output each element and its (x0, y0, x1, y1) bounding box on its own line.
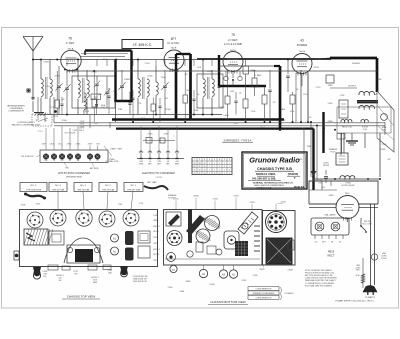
svg-text:78: 78 (53, 160, 55, 162)
svg-text:TYPE 43 TUBE: TYPE 43 TUBE (52, 189, 65, 191)
small box tone cond (326, 75, 334, 83)
ps junction dots (312, 178, 314, 180)
svg-text:NOTE: ON MODEL 588 CLEARLY: NOTE: ON MODEL 588 CLEARLY (305, 269, 333, 272)
svg-text:43: 43 (69, 160, 71, 162)
bottom view trimmer A3 (219, 270, 227, 278)
V3 cathode parts (225, 96, 230, 104)
svg-text:VOLUME CONT.: VOLUME CONT. (105, 161, 119, 163)
svg-text:COMPENSATOR: COMPENSATOR (8, 110, 24, 113)
svg-text:27?4: 27?4 (50, 107, 54, 109)
svg-text:1º′ DET: 1º′ DET (66, 41, 75, 45)
antenna (23, 36, 43, 38)
svg-text:F: F (224, 159, 225, 161)
svg-text:2 MEG: 2 MEG (124, 79, 130, 81)
hatched socket circle 2 (196, 229, 210, 243)
ps right wires (370, 204, 372, 286)
svg-text:RECT: RECT (327, 254, 334, 258)
small socket circle (167, 253, 176, 262)
svg-text:CHASSIS TOP VIEW: CHASSIS TOP VIEW (67, 295, 96, 299)
bus V1 plate thick (85, 49, 132, 51)
chassis left knob (14, 251, 19, 260)
bypass terminal 6 (87, 154, 93, 160)
pilot lamp 1 (315, 222, 324, 231)
terminals column right (254, 225, 260, 227)
filter condenser (324, 176, 328, 178)
svg-text:CHASSIS BOTTOM VIEW: CHASSIS BOTTOM VIEW (210, 300, 245, 304)
svg-text:300: 300 (62, 99, 65, 101)
svg-text:TYPE 78 TUBE: TYPE 78 TUBE (102, 189, 115, 191)
svg-text:27092: 27092 (153, 260, 158, 262)
svg-text:587-588: 587-588 (153, 254, 159, 256)
svg-text:27048: 27048 (340, 95, 345, 97)
filter choke (340, 176, 355, 179)
dark vertical bars (188, 209, 192, 243)
svg-text:27023: 27023 (382, 144, 387, 146)
svg-text:FILTER: FILTER (323, 165, 330, 167)
svg-text:+300: +300 (175, 161, 179, 163)
wire main top bus (33, 59, 197, 61)
svg-text:CHASSIS TYPE 5-B: CHASSIS TYPE 5-B (257, 167, 292, 171)
svg-text:541-580-587 & 588,: 541-580-587 & 588, (252, 176, 276, 180)
speaker box side tab (288, 240, 294, 250)
svg-text:ANT. LEAD: ANT. LEAD (147, 181, 157, 184)
svg-text:CORD: CORD (356, 267, 362, 269)
svg-text:25878: 25878 (220, 107, 225, 109)
svg-text:25884: 25884 (377, 79, 382, 81)
svg-text:TO SHIELD: TO SHIELD (284, 293, 294, 295)
svg-text:25: 25 (219, 173, 221, 175)
svg-text:C-BIAS: C-BIAS (223, 114, 230, 117)
electrolytic can 1 (125, 231, 134, 245)
speaker ground (351, 133, 353, 141)
electrolytic terminal 5 (176, 151, 178, 159)
bypass condenser unit (40, 150, 108, 163)
svg-text:C3: C3 (96, 160, 98, 162)
svg-text:ANTENNA SERIES: ANTENNA SERIES (7, 104, 25, 107)
leaders from boxes to chassis (57, 192, 59, 210)
wire ant to coil (33, 59, 41, 61)
svg-text:2784A: 2784A (62, 119, 68, 122)
svg-text:27034: 27034 (251, 111, 256, 113)
2nd IF transformer can (197, 74, 223, 108)
small box right of L3 (91, 94, 101, 100)
svg-text:#294: #294 (94, 123, 98, 125)
svg-text:T: T (194, 159, 195, 161)
wire left edge vertical (53, 97, 55, 123)
svg-text:I.F. 455 K.C.: I.F. 455 K.C. (133, 43, 153, 47)
tube position box 3 (74, 183, 92, 192)
wire rect down (347, 218, 349, 223)
svg-text:50M: 50M (164, 98, 168, 100)
svg-text:.006: .006 (230, 91, 234, 93)
wire link bottom schematic to ps (303, 130, 305, 188)
svg-text:SPEAKER: SPEAKER (352, 62, 361, 65)
svg-text:C5: C5 (89, 160, 91, 162)
electrolytic terminal 4 (167, 151, 169, 159)
right mid vertical links (295, 80, 297, 123)
chassis bottom edge knob 1 (33, 267, 41, 276)
diode arrow symbol (311, 171, 317, 176)
svg-text:27023: 27023 (298, 159, 303, 161)
svg-text:27044: 27044 (165, 109, 170, 111)
bus shield left vertical (114, 60, 116, 102)
svg-text:.05: .05 (239, 93, 242, 95)
bus shield bottom (114, 100, 132, 102)
junction red dot (54, 110, 57, 113)
speaker assembly dashed box (337, 107, 391, 133)
svg-text:25880: 25880 (328, 121, 333, 123)
mica condenser (95, 104, 98, 106)
svg-text:25M: 25M (186, 90, 190, 92)
wire x115 down (115, 101, 117, 122)
cord resistor label stack (248, 287, 279, 291)
socket tops row (27, 212, 43, 228)
if can top (49, 231, 64, 245)
bus right vertical thick (279, 66, 282, 130)
bypass terminal 7 (95, 154, 101, 160)
oscillator coil (137, 60, 139, 80)
svg-text:OUTPUT: OUTPUT (348, 86, 357, 88)
bus output top thick (330, 57, 377, 60)
electrolytic can 2 (125, 248, 134, 261)
if can w diag roll (166, 212, 181, 226)
svg-text:25881: 25881 (153, 220, 158, 222)
svg-text:MEG: MEG (281, 109, 286, 111)
svg-text:NECTION IS A PROVISION TO RE: NECTION IS A PROVISION TO RE- (305, 274, 333, 277)
svg-text:.0?: .0? (129, 92, 131, 94)
on-off switch ps (360, 218, 362, 226)
wire bus B2 (54, 125, 385, 127)
svg-text:NO. 2: NO. 2 (105, 185, 111, 187)
svg-text:PB25: PB25 (328, 250, 335, 254)
svg-text:C82: C82 (184, 74, 187, 76)
svg-text:SUPERSEDES - TYPE 5-A: SUPERSEDES - TYPE 5-A (224, 139, 252, 142)
svg-text:SPEAKER CONDENSER: SPEAKER CONDENSER (253, 292, 275, 295)
svg-text:25878: 25878 (281, 120, 286, 122)
svg-text:.25: .25 (273, 102, 276, 104)
svg-text:278-1: 278-1 (58, 144, 62, 146)
bus avc horizontal thick (219, 85, 266, 87)
antenna terminal dot (27, 89, 30, 92)
svg-text:400 V: 400 V (79, 130, 84, 132)
resistor R2 (252, 78, 257, 87)
right small boxes in chassis (138, 231, 150, 243)
svg-text:.1: .1 (112, 91, 113, 93)
svg-text:15: 15 (214, 173, 216, 175)
hatched socket circle 1 (205, 216, 220, 231)
speaker lead pair (341, 133, 343, 153)
bypass terminal 1 (43, 154, 49, 160)
svg-text:27034: 27034 (153, 237, 158, 239)
svg-text:#2234: #2234 (280, 202, 285, 204)
electrolytic terminal 3 (158, 151, 160, 159)
coil L3 below IF1 (84, 93, 86, 110)
bottom view trimmer A4 (170, 265, 177, 272)
svg-text:FILTER CHOKE: FILTER CHOKE (342, 185, 356, 187)
svg-text:75: 75 (194, 170, 196, 172)
svg-text:2784: 2784 (118, 204, 122, 206)
bus bottom right thick (116, 128, 314, 130)
resistor R4 (243, 99, 248, 108)
svg-text:27145: 27145 (147, 76, 152, 78)
svg-text:90: 90 (199, 170, 201, 172)
svg-text:P&L: P&L (44, 160, 47, 162)
board pins (314, 235, 316, 239)
V1 screen cluster (92, 99, 97, 107)
wire V4 plate vertical (300, 70, 302, 122)
svg-text:2876 BY-PASS CONDENSER: 2876 BY-PASS CONDENSER (58, 172, 90, 175)
svg-text:25880: 25880 (328, 103, 333, 105)
svg-text:78: 78 (68, 37, 72, 41)
svg-text:PADDING CONDENSER 25876: PADDING CONDENSER 25876 (12, 123, 41, 126)
small circles bottom edge (187, 251, 193, 257)
electrolytic terminal 2 (149, 151, 151, 159)
svg-text:25877: 25877 (42, 144, 47, 146)
svg-text:43: 43 (194, 173, 196, 175)
title block outer (242, 152, 307, 189)
svg-text:(5KW45): (5KW45) (288, 172, 299, 176)
svg-text:562: 562 (388, 159, 391, 161)
volume control parts row (143, 140, 175, 142)
interlock circle (371, 254, 377, 260)
svg-text:K: K (214, 159, 215, 161)
field coil (341, 120, 352, 122)
svg-text:562 B: 562 B (171, 47, 177, 49)
svg-text:COIL: COIL (382, 129, 386, 131)
chassis bottom extra parts (242, 223, 248, 229)
power section frame (309, 181, 378, 204)
svg-text:6F7: 6F7 (171, 37, 177, 41)
svg-text:DIAL: DIAL (108, 272, 112, 275)
power plug (363, 286, 377, 293)
svg-text:COIL: COIL (363, 129, 367, 131)
variable condenser C3 (163, 85, 167, 87)
svg-text:“ON” POSITION: “ON” POSITION (21, 156, 35, 158)
svg-text:2784: 2784 (96, 144, 100, 146)
svg-text:PILOT LIGHT: PILOT LIGHT (65, 133, 77, 135)
speaker cone (377, 91, 394, 152)
rounded unit with circle (224, 231, 239, 249)
svg-text:5 TO 4: 5 TO 4 (37, 131, 42, 133)
svg-text:A.V.C & A.F AMP: A.V.C & A.F AMP (224, 43, 243, 46)
V4 pin wires (295, 73, 297, 80)
bus mid T thick (189, 54, 192, 120)
svg-text:27034: 27034 (234, 196, 239, 198)
tube position box 1 (20, 183, 47, 192)
svg-text:27040: 27040 (210, 284, 215, 286)
svg-text:250: 250 (139, 103, 142, 105)
trimmer A2 top (111, 234, 119, 242)
svg-text:LINE: LINE (356, 265, 360, 267)
IF frequency box (122, 40, 163, 49)
svg-text:562 A: 562 A (68, 47, 74, 50)
svg-text:NO. 5: NO. 5 (31, 185, 37, 187)
voltage table (192, 158, 232, 175)
svg-text:CORD RESISTOR: CORD RESISTOR (256, 298, 272, 300)
svg-text:27092: 27092 (242, 280, 247, 282)
svg-text:715: 715 (309, 117, 312, 119)
svg-text:95: 95 (199, 166, 201, 168)
V4 grid resistor (290, 95, 295, 104)
wire avc segment y66 (219, 65, 274, 67)
top band tick wires (66, 60, 68, 67)
svg-text:TYPE 25W5 FUSE: TYPE 25W5 FUSE (26, 189, 42, 191)
svg-text:25881: 25881 (186, 281, 191, 283)
IF2 trimmers (218, 85, 221, 87)
svg-text:25876: 25876 (80, 123, 85, 125)
svg-text:27091: 27091 (73, 130, 78, 132)
extra mid caps (108, 95, 111, 97)
speaker plug small box (339, 100, 348, 118)
resistor R1 (243, 66, 249, 74)
svg-text:760 B: 760 B (296, 73, 302, 75)
svg-text:GENERAL HOUSEHOLD UTILITIES CO: GENERAL HOUSEHOLD UTILITIES CO. (253, 181, 294, 184)
antenna series condenser (31, 97, 34, 99)
dashed link schematic to bypass unit (45, 128, 47, 146)
svg-text:2784: 2784 (194, 110, 198, 112)
svg-text:40 W: 40 W (356, 275, 360, 277)
svg-text:27741: 27741 (174, 199, 179, 201)
bypass terminal 5 (75, 154, 81, 160)
wire bus B1 (54, 122, 385, 124)
svg-text:78: 78 (194, 163, 196, 165)
dark diagonal roll 2 (186, 215, 205, 235)
electrolytic terminal 1 (140, 151, 142, 159)
speaker assembly box (263, 211, 296, 266)
output transformer T2 (359, 91, 375, 95)
svg-text:27741: 27741 (139, 203, 144, 205)
svg-text:#2784: #2784 (213, 199, 218, 201)
small parts bottom view (196, 242, 203, 252)
V1 cathode cluster (55, 100, 60, 108)
electrolytic link wires (140, 126, 142, 151)
svg-text:+8F: +8F (167, 161, 170, 163)
bus shield right vertical (130, 51, 132, 102)
svg-text:25881: 25881 (180, 291, 185, 293)
condenser C11 (234, 100, 237, 102)
svg-text:VOL CONT: VOL CONT (362, 223, 372, 225)
filter bus (314, 178, 381, 180)
svg-text:25 WATTS: 25 WATTS (365, 296, 375, 299)
svg-text:75: 75 (231, 33, 235, 37)
dial assembly (67, 245, 100, 263)
svg-text:PLUG: PLUG (382, 258, 387, 260)
V2 thick top jog (176, 53, 183, 55)
speaker plug box (336, 153, 348, 165)
svg-text:PLUG: PLUG (331, 151, 336, 153)
vol leader (104, 146, 112, 156)
svg-text:POWER SUPPLY 105-125V. A.C. O: POWER SUPPLY 105-125V. A.C. OR D.C. (335, 299, 375, 302)
wire bus AVC (38, 114, 222, 116)
svg-text:27048: 27048 (288, 270, 293, 272)
svg-text:V: V (229, 159, 230, 161)
bus lower horizontal thick (112, 118, 284, 121)
tuning condenser hatched (24, 229, 48, 245)
svg-text:562 A: 562 A (299, 50, 305, 53)
wire second top bus (67, 70, 377, 72)
svg-text:RAD 61: RAD 61 (294, 185, 304, 189)
svg-text:27070: 27070 (316, 87, 321, 89)
leader lines bottom trimmers (203, 265, 205, 269)
chassis top view outline (20, 210, 158, 267)
hatched diag can top right (238, 212, 258, 234)
pilot lamp 2 (331, 222, 340, 231)
trimmer cap ant (57, 85, 60, 87)
bus down to power supply thick (312, 129, 314, 190)
dark grid block (235, 241, 248, 256)
svg-text:COND.: COND. (323, 163, 329, 165)
trimmer A1 top (111, 247, 119, 255)
svg-text:25877: 25877 (36, 204, 41, 206)
svg-text:H: H (219, 159, 220, 161)
variable tuning condenser C2 (120, 85, 124, 87)
V3 pin wires (225, 71, 227, 76)
svg-text:95: 95 (199, 173, 201, 175)
osc cathode cluster (151, 104, 156, 111)
trimmer condensers IF1 (95, 83, 98, 85)
svg-text:S: S (209, 159, 210, 161)
svg-text:27741: 27741 (153, 215, 158, 217)
svg-text:RES.: RES. (356, 270, 360, 272)
wire trap box (32, 114, 52, 126)
grid cap V1 (64, 69, 66, 71)
svg-text:Grunow Radio: Grunow Radio (249, 156, 300, 165)
svg-text:43: 43 (300, 38, 304, 42)
left lower vertical wires (44, 115, 46, 123)
tube position box 5 (124, 183, 143, 192)
svg-text:POST WAS USED FOR CHASSIS: POST WAS USED FOR CHASSIS (305, 284, 333, 287)
svg-text:25WS MODEL 541: 25WS MODEL 541 (133, 281, 147, 283)
bus V2 plate thick (175, 70, 178, 120)
coupling condenser (286, 75, 289, 77)
svg-text:+25: +25 (149, 161, 152, 163)
bottom view trimmer A1 (229, 270, 237, 278)
svg-text:180: 180 (198, 163, 201, 165)
antenna lead wire (32, 51, 34, 100)
svg-text:MODEL 1: MODEL 1 (153, 226, 160, 228)
svg-text:.1 MEG: .1 MEG (255, 75, 262, 77)
condenser C10 (268, 89, 271, 91)
svg-text:25879: 25879 (153, 243, 158, 245)
antenna coil L1 (40, 60, 42, 80)
svg-text:40: 40 (204, 166, 206, 168)
svg-text:CHICAGO U.S.A.: CHICAGO U.S.A. (256, 186, 272, 189)
dial window dark (75, 249, 93, 262)
svg-text:40: 40 (204, 170, 206, 172)
svg-text:27844: 27844 (67, 144, 72, 146)
svg-text:25876: 25876 (141, 118, 146, 120)
svg-text:C7942: C7942 (43, 62, 49, 64)
voice coil (361, 120, 368, 122)
svg-text:25884: 25884 (307, 146, 312, 148)
svg-text:C7044: C7044 (145, 63, 150, 65)
svg-text:715 A: 715 A (161, 76, 167, 79)
svg-text:TYPE 6F7 TUBE: TYPE 6F7 TUBE (127, 189, 141, 191)
socket circle w dots (167, 231, 182, 246)
svg-text:# 7741: # 7741 (155, 177, 162, 179)
wire under rectifier (309, 207, 336, 209)
svg-text:P: P (199, 159, 200, 161)
svg-text:DIAL LAMPS: DIAL LAMPS (324, 214, 336, 217)
fuse drawing (26, 194, 44, 198)
svg-text:27143: 27143 (46, 86, 51, 88)
svg-text:VOL: VOL (43, 276, 46, 278)
output transformer rear dark (266, 238, 292, 264)
svg-text:540-541: 540-541 (153, 231, 159, 233)
small parts on bottom edge (48, 265, 58, 270)
svg-text:MODEL 2: MODEL 2 (153, 249, 160, 251)
svg-text:SET: SET (74, 274, 77, 276)
